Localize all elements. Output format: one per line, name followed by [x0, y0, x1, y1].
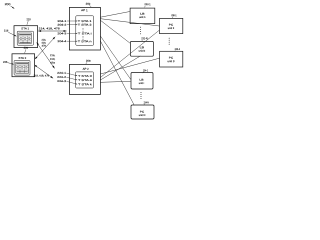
- svg-text:unit 2: unit 2: [168, 26, 175, 30]
- svg-text:unit N: unit N: [139, 113, 146, 117]
- svg-text:216,: 216,: [50, 54, 56, 57]
- svg-text:234-N: 234-N: [144, 100, 149, 104]
- svg-text:T STA 2: T STA 2: [78, 23, 93, 27]
- svg-text:204-3: 204-3: [57, 31, 67, 35]
- svg-text:T STA k: T STA k: [78, 82, 93, 86]
- labels 224-1..224-3 with leader lines: [57, 71, 77, 85]
- ellipsis dots below PC unit 2: [168, 38, 171, 45]
- svg-text:232-1: 232-1: [144, 2, 151, 6]
- access point AP2 outer box: [69, 65, 100, 95]
- label 226 with arrow to STA2 inner box: [3, 60, 14, 65]
- AP1 inner table box: [76, 16, 94, 46]
- wire AP2 to LB unit i: [100, 81, 130, 82]
- ellipsis dots below LB unit i: [140, 92, 143, 99]
- svg-text:418,: 418,: [50, 58, 56, 61]
- svg-text:478: 478: [42, 45, 47, 48]
- svg-text:234-1: 234-1: [143, 68, 149, 72]
- access point AP1 outer box: [69, 7, 100, 50]
- PC unit N box: [131, 105, 154, 119]
- svg-text:202: 202: [86, 2, 91, 6]
- svg-text:204-1: 204-1: [57, 19, 67, 23]
- STA1 inner unit box: [17, 31, 33, 45]
- wire AP1 to PC unit 2: [100, 19, 159, 26]
- label 220 (STA2 reference): [24, 46, 29, 54]
- svg-text:T STA 4: T STA 4: [78, 78, 93, 82]
- svg-text:T STA i: T STA i: [78, 31, 93, 35]
- double arrow STA2-AP2: [34, 65, 53, 78]
- label AP 2: [83, 67, 90, 71]
- svg-text:232-N: 232-N: [141, 36, 147, 40]
- svg-text:224-1: 224-1: [57, 71, 67, 75]
- wire AP2 to PC unit 3: [100, 58, 159, 74]
- PC unit 3 box: [160, 51, 183, 67]
- svg-text:T STA n: T STA n: [78, 39, 93, 43]
- label 232-N: [141, 36, 147, 41]
- label 218, 418, 478: [34, 74, 50, 77]
- label AP 1: [81, 8, 88, 12]
- svg-text:unit N: unit N: [139, 49, 146, 53]
- AP1 table ellipsis dots: [82, 28, 85, 40]
- label 214, 418, 478: [39, 26, 61, 30]
- svg-text:LB: LB: [140, 45, 145, 49]
- wire AP1 to LB unit 1: [100, 12, 129, 18]
- double arrow STA1-AP1: [38, 30, 66, 32]
- AP1 table entries: [78, 19, 93, 43]
- svg-text:226: 226: [3, 60, 8, 64]
- svg-text:unit 1: unit 1: [139, 15, 146, 19]
- station STA2 outer box: [12, 54, 35, 77]
- double arrow STA1-AP2: [37, 42, 55, 68]
- svg-text:204-2: 204-2: [57, 23, 67, 27]
- svg-text:PC: PC: [140, 110, 145, 114]
- svg-text:216: 216: [4, 28, 9, 32]
- PC unit 2 box: [160, 18, 183, 33]
- label 208 (AP2 reference): [86, 59, 91, 65]
- station STA1 outer box: [14, 26, 38, 48]
- svg-text:218, 418, 478: 218, 418, 478: [34, 74, 50, 77]
- svg-text:214, 418, 478: 214, 418, 478: [39, 26, 61, 30]
- svg-text:236-2: 236-2: [175, 47, 181, 51]
- svg-text:224-2: 224-2: [57, 75, 67, 79]
- svg-text:204-4: 204-4: [57, 39, 67, 43]
- svg-text:224-3: 224-3: [57, 79, 67, 83]
- svg-text:200: 200: [5, 2, 11, 6]
- svg-text:T STA 3: T STA 3: [78, 74, 93, 78]
- double arrow STA2-AP1: [35, 37, 55, 59]
- svg-text:STA 2: STA 2: [19, 56, 27, 60]
- wire AP1 to PC unit N: [100, 41, 134, 105]
- label 200 (figure reference numeral): [5, 2, 11, 6]
- svg-text:210: 210: [26, 17, 31, 21]
- STA1 table: [19, 33, 32, 43]
- svg-text:LB: LB: [139, 78, 144, 82]
- wire AP1 to LB unit N: [100, 20, 130, 43]
- svg-text:PC: PC: [169, 23, 174, 27]
- svg-text:PC: PC: [169, 56, 174, 60]
- wire AP2 to PC unit 2: [100, 30, 159, 77]
- LB unit N box: [130, 41, 153, 56]
- label 236-1: [171, 13, 177, 18]
- label STA 2: [19, 56, 27, 60]
- label 210 (STA1 reference): [26, 17, 31, 25]
- LB unit i box: [131, 73, 153, 90]
- wire AP1 to LB unit i: [100, 36, 130, 80]
- AP2 inner table box: [76, 72, 94, 88]
- svg-text:T STA 1: T STA 1: [78, 19, 93, 23]
- label 234-N: [143, 100, 148, 105]
- LB unit 1 box: [130, 8, 155, 24]
- label 234-1: [143, 68, 149, 73]
- svg-text:208: 208: [86, 59, 91, 63]
- STA2 table: [16, 62, 29, 73]
- arrow from label 200: [11, 6, 15, 9]
- label STA 1: [21, 26, 29, 30]
- label 216 with arrow to STA1 inner box: [4, 28, 17, 36]
- wire AP2 to LB unit N: [100, 56, 140, 80]
- label 202 (AP1 reference): [86, 2, 92, 8]
- label stack 216 418 478 (lower): [50, 54, 56, 65]
- ellipsis dots below LB unit 1: [139, 27, 142, 35]
- label stack 216 418 478 (upper): [41, 39, 46, 48]
- svg-text:220: 220: [24, 46, 29, 50]
- AP2 table entries: [78, 74, 93, 86]
- svg-text:236-1: 236-1: [171, 13, 177, 17]
- svg-text:unit 3: unit 3: [167, 59, 175, 63]
- svg-text:LB: LB: [140, 12, 145, 16]
- labels 204-1..204-4 with leader lines: [57, 19, 77, 43]
- label 232-1: [144, 2, 151, 7]
- label 236-2: [174, 47, 180, 52]
- svg-text:AP 2: AP 2: [83, 67, 90, 71]
- STA2 inner unit box: [14, 60, 30, 75]
- svg-text:STA 1: STA 1: [21, 26, 29, 30]
- svg-text:478: 478: [50, 62, 56, 65]
- svg-text:AP 1: AP 1: [81, 8, 88, 12]
- svg-text:unit i: unit i: [139, 81, 145, 85]
